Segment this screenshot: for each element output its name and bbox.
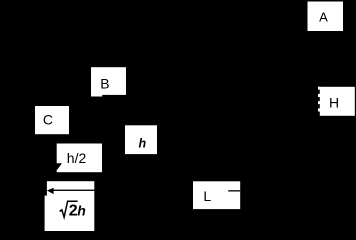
- svg-text:h: h: [138, 136, 146, 150]
- svg-text:C: C: [43, 111, 53, 127]
- label box L: [193, 181, 240, 209]
- svg-text:L: L: [203, 188, 211, 204]
- vertical extension line tick at top-left of sqrt(2)h box: [44, 181, 47, 196]
- label box h: [125, 125, 157, 154]
- label box h/2: [57, 144, 102, 173]
- dimension line stub at right of L box: [228, 190, 240, 191]
- dimension line in sqrt(2)h box: [53, 190, 94, 191]
- label box C: [35, 106, 69, 134]
- label box sqrt(2)h: [45, 181, 95, 231]
- arrowhead wedge at lower-left of h/2 box: [50, 163, 62, 170]
- left arrowhead of dimension line: [47, 188, 54, 194]
- label box H: [320, 87, 355, 116]
- svg-text:B: B: [100, 75, 109, 91]
- svg-text:h/2: h/2: [67, 150, 87, 166]
- label box B: [91, 67, 126, 95]
- label box A: [308, 2, 344, 32]
- dashed line tabs on left edge of H box: [318, 87, 320, 90]
- svg-text:H: H: [329, 94, 339, 110]
- svg-text:A: A: [319, 10, 328, 25]
- white tab at bottom-left of box B: [91, 95, 102, 97]
- radical sign of sqrt(2)h: [60, 201, 78, 217]
- svg-text:h: h: [77, 202, 86, 218]
